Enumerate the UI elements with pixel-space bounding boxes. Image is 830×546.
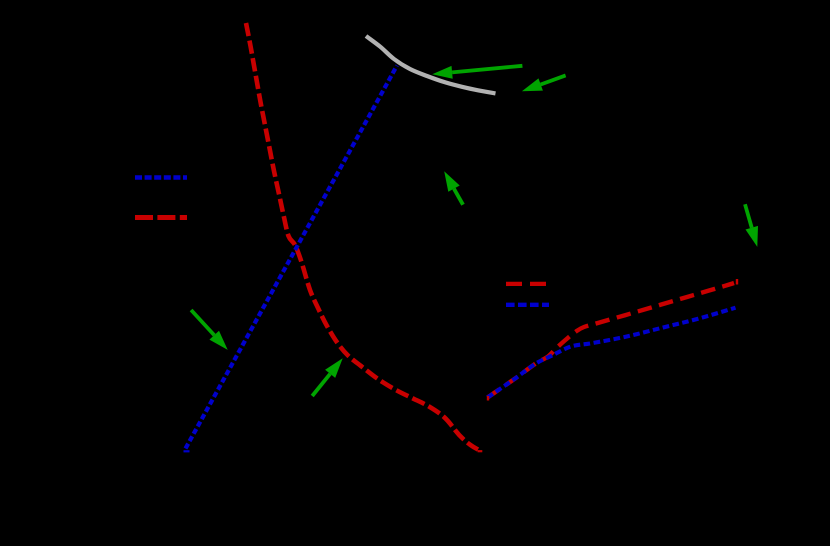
right panel: blue dashed curve bbox=[488, 308, 736, 398]
green arrow 1 (points left to gray curve) bbox=[432, 64, 522, 79]
legend sample: blue dashed (right panel) bbox=[506, 303, 549, 307]
blue dotted line (left panel diagonal) bbox=[186, 66, 398, 449]
blue line bottom end dash bbox=[184, 450, 190, 452]
right red curve start tick bbox=[487, 396, 489, 401]
green arrow 5 (left panel, points down-right to blue line) bbox=[190, 309, 228, 350]
green arrow 2 (points down-left) bbox=[522, 74, 566, 92]
legend sample: blue dotted (left panel) bbox=[135, 175, 187, 180]
red curve end dash bbox=[478, 450, 483, 452]
right red curve end tick bbox=[736, 279, 738, 285]
gray curve (upper boundary arc) bbox=[366, 36, 496, 93]
right panel: red dashed curve bbox=[488, 283, 735, 398]
green arrow 4 (right panel, points down) bbox=[743, 204, 758, 247]
red dashed curve (left panel decreasing) bbox=[246, 23, 478, 450]
green arrow 3 (points up-left) bbox=[444, 171, 465, 205]
legend sample: red dashed (right panel) bbox=[506, 282, 546, 286]
legend sample: red dashed (left panel) bbox=[135, 215, 187, 220]
green arrow 6 (left panel, points up-right to red curve) bbox=[311, 358, 343, 397]
